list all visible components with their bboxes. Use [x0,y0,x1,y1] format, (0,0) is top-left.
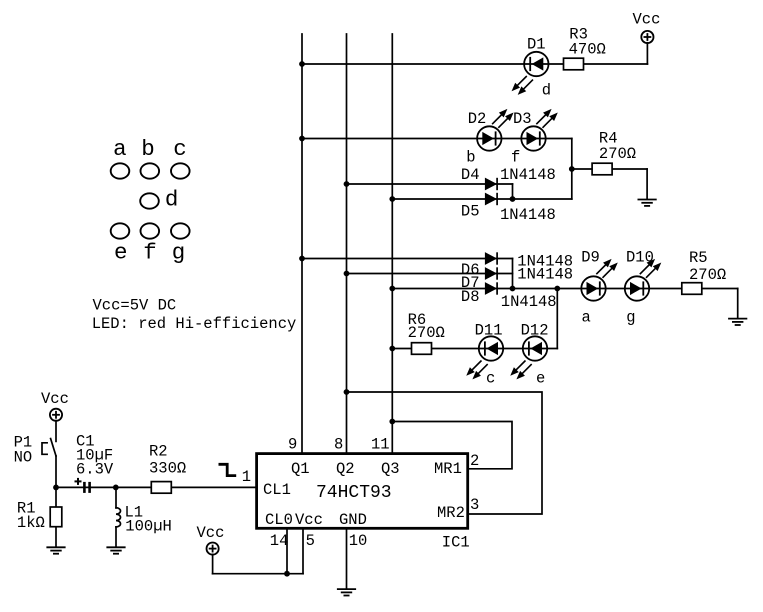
svg-text:f: f [143,239,157,265]
svg-text:a: a [113,136,127,162]
svg-text:g: g [626,308,635,326]
svg-text:270Ω: 270Ω [599,145,636,163]
svg-text:6.3V: 6.3V [76,460,114,478]
svg-text:D3: D3 [513,110,532,128]
svg-text:Vcc: Vcc [197,524,225,542]
svg-text:NO: NO [14,449,33,467]
svg-text:1N4148: 1N4148 [501,293,557,311]
svg-text:CL1: CL1 [263,481,291,499]
svg-text:330Ω: 330Ω [149,460,186,478]
svg-text:5: 5 [306,532,315,550]
svg-text:8: 8 [334,436,343,454]
svg-text:74HCT93: 74HCT93 [316,483,392,503]
svg-text:g: g [172,239,186,265]
svg-text:Q1: Q1 [291,460,310,478]
svg-text:10: 10 [349,532,368,550]
svg-text:D1: D1 [527,36,546,54]
svg-text:b: b [466,149,475,167]
svg-text:100µH: 100µH [125,518,172,536]
svg-text:Vcc: Vcc [633,11,661,29]
svg-text:D8: D8 [461,288,480,306]
svg-text:270Ω: 270Ω [689,266,726,284]
svg-text:Vcc: Vcc [41,390,69,408]
svg-text:D9: D9 [581,249,600,267]
svg-text:MR1: MR1 [434,460,462,478]
svg-text:d: d [542,81,551,99]
svg-text:1N4148: 1N4148 [500,166,556,184]
svg-text:9: 9 [288,436,297,454]
svg-text:1N4148: 1N4148 [500,206,556,224]
svg-text:R5: R5 [689,249,708,267]
svg-text:D2: D2 [468,110,487,128]
svg-text:IC1: IC1 [442,534,470,552]
svg-text:D11: D11 [475,321,503,339]
svg-text:1: 1 [242,468,251,486]
svg-text:CL0: CL0 [265,511,293,529]
svg-text:D10: D10 [626,249,654,267]
svg-text:11: 11 [371,436,390,454]
svg-text:D12: D12 [521,321,549,339]
svg-text:2: 2 [470,452,479,470]
svg-text:1N4148: 1N4148 [517,266,573,284]
svg-text:14: 14 [270,532,289,550]
svg-text:MR2: MR2 [437,504,465,522]
svg-text:Q3: Q3 [381,460,400,478]
svg-text:3: 3 [470,496,479,514]
svg-text:c: c [486,370,495,388]
svg-text:b: b [141,136,155,162]
svg-text:470Ω: 470Ω [569,40,606,58]
svg-text:e: e [536,370,545,388]
svg-text:d: d [165,187,179,213]
svg-text:e: e [114,239,128,265]
svg-text:c: c [173,136,187,162]
svg-text:GND: GND [339,511,367,529]
svg-text:f: f [511,149,520,167]
svg-text:D5: D5 [461,203,480,221]
svg-text:Q2: Q2 [336,460,355,478]
svg-text:a: a [582,308,591,326]
svg-text:R2: R2 [149,443,168,461]
svg-text:LED: red Hi-efficiency: LED: red Hi-efficiency [92,315,297,333]
svg-text:1kΩ: 1kΩ [17,514,45,532]
svg-text:Vcc: Vcc [295,511,323,529]
svg-text:Vcc=5V DC: Vcc=5V DC [93,297,177,315]
svg-text:D4: D4 [461,166,480,184]
svg-text:270Ω: 270Ω [408,324,445,342]
